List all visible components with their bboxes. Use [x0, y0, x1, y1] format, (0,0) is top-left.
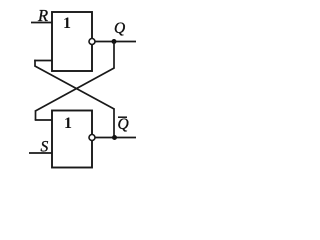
wire: diagonal B (Q-bar feedback rising to U1)	[34, 66, 114, 110]
wire: input S to U2 pin 2	[29, 152, 52, 154]
wire: input R to U1 pin 1	[31, 22, 52, 24]
wire: vertical from diagonal B down to Q-bar node	[113, 109, 115, 138]
wire: U1 pin 2 (feedback from Q-bar) horizontal stub	[34, 60, 52, 62]
wire: U2 output to Q-bar	[95, 137, 136, 139]
wire: U1 output to Q	[95, 41, 136, 43]
wire: vertical at left down to U2 upper input	[35, 111, 37, 121]
svg-text:S: S	[41, 139, 49, 156]
wire: corner vertical at left, top gate lower input	[34, 60, 36, 66]
node Q-bar (junction dot)	[112, 135, 117, 140]
svg-text:1: 1	[63, 15, 71, 32]
wire: diagonal A (Q feedback falling to U2)	[35, 68, 115, 112]
inversion bubble on U2 output	[89, 135, 95, 141]
svg-text:R: R	[37, 6, 48, 25]
overline of Q-bar	[118, 116, 127, 118]
svg-text:Q: Q	[118, 116, 129, 133]
svg-text:1: 1	[64, 115, 72, 132]
gate U1 body (top NOR, IEC box)	[52, 12, 92, 71]
wire: U2 pin 1 horizontal stub (feedback from Q)	[35, 119, 52, 121]
gate U2 body (bottom NOR, IEC box)	[52, 111, 92, 168]
wire: vertical from Q node down	[113, 42, 115, 69]
inversion bubble on U1 output	[89, 39, 95, 45]
svg-text:Q: Q	[114, 20, 125, 37]
node Q (junction dot)	[112, 39, 117, 44]
